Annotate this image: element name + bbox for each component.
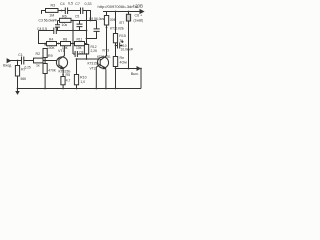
input terminal arrow <box>7 59 10 62</box>
resistor row2 box1 <box>47 42 57 46</box>
svg-text:R7: R7 <box>21 68 26 72</box>
wire base VT1 <box>45 60 59 62</box>
svg-text:С8: С8 <box>79 51 83 55</box>
resistor R15 <box>113 34 117 43</box>
wire x76 column <box>76 59 78 89</box>
svg-text:10К: 10К <box>76 46 82 50</box>
svg-text:470К: 470К <box>48 68 56 72</box>
resistor R13 from rail <box>104 16 108 26</box>
svg-text:/VT3: /VT3 <box>102 49 109 53</box>
wire emitter to ground <box>62 85 64 89</box>
svg-text:56К: 56К <box>21 77 27 81</box>
svg-text:С3 56,0мкФ: С3 56,0мкФ <box>39 19 58 23</box>
wire output y68 <box>116 68 138 70</box>
svg-text:С5: С5 <box>75 14 79 18</box>
wire Rn to ground <box>115 67 117 89</box>
wire x86 vertical <box>86 11 88 60</box>
svg-text:Вход: Вход <box>3 64 12 68</box>
resistor R12 on x86 <box>84 45 88 55</box>
svg-text:4,7: 4,7 <box>66 78 71 82</box>
svg-text:/ПТ: /ПТ <box>119 21 124 25</box>
svg-text:R11: R11 <box>77 37 83 41</box>
rail terminal arrow <box>140 10 144 14</box>
transistor VT3 <box>97 57 108 68</box>
resistor R6 <box>60 18 72 22</box>
+20V rail <box>103 11 140 13</box>
wire row2 <box>45 43 86 45</box>
svg-text:КТ315Б: КТ315Б <box>88 62 100 66</box>
svg-text:З0Ф: З0Ф <box>110 18 117 22</box>
wire x57 down <box>57 21 59 31</box>
wire y58.5 to VT3 base <box>77 58 100 60</box>
wire node x17 down <box>17 61 19 89</box>
capacitor C5 <box>77 21 83 31</box>
capacitor C10 plates <box>118 43 120 49</box>
capacitor C1 plates <box>22 57 24 65</box>
svg-text:С9 56,0мк: С9 56,0мк <box>89 17 105 21</box>
resistor R9 <box>43 64 47 74</box>
wire output terminal down <box>140 69 142 89</box>
svg-text:1к: 1к <box>119 39 123 43</box>
resistor row2 box3 <box>75 42 85 46</box>
svg-text:0,5: 0,5 <box>68 2 73 6</box>
wire R4 to base node <box>44 58 46 64</box>
svg-text:С6 +: С6 + <box>135 14 143 18</box>
wire R9 to ground <box>44 74 46 89</box>
svg-text:С4 0,5: С4 0,5 <box>37 27 47 31</box>
svg-text:0,33: 0,33 <box>85 2 92 6</box>
resistor R5 emitter <box>61 77 65 85</box>
output terminal arrow <box>137 67 140 70</box>
capacitor C3 plates <box>55 25 60 27</box>
resistor R10 <box>74 75 78 85</box>
svg-text:Вых.: Вых. <box>131 72 139 76</box>
transistor VT2 emitter leg <box>96 64 100 89</box>
svg-text:1М: 1М <box>49 14 54 18</box>
svg-text:Rн: Rн <box>120 56 125 60</box>
svg-text:С4: С4 <box>60 2 65 6</box>
svg-text:R9: R9 <box>48 54 53 58</box>
svg-text:100К: 100К <box>47 46 55 50</box>
resistor R2 <box>34 58 44 63</box>
capacitor C7 plates <box>81 8 83 15</box>
svg-text:С7: С7 <box>75 2 80 6</box>
resistor R3 top <box>46 9 59 13</box>
svg-text:КТ3102Б: КТ3102Б <box>110 27 125 31</box>
wire top feedback line <box>42 11 91 21</box>
wire x128 from rail <box>128 12 130 69</box>
capacitor C8 <box>73 51 87 57</box>
svg-text:4Ом: 4Ом <box>120 60 128 64</box>
svg-text:10к: 10к <box>62 23 68 27</box>
svg-text:КТ3107Б: КТ3107Б <box>97 55 110 59</box>
wire input <box>10 60 33 62</box>
svg-text:1к: 1к <box>36 64 40 68</box>
svg-text:R4: R4 <box>49 37 53 41</box>
svg-text:10,0мкФ: 10,0мкФ <box>121 48 134 52</box>
ground rail <box>18 88 142 90</box>
svg-text:R10: R10 <box>80 76 87 80</box>
svg-text:VT2: VT2 <box>90 66 96 70</box>
wire x115 from rail <box>115 12 117 34</box>
svg-text:(1watt): (1watt) <box>134 18 144 22</box>
resistor R4 <box>43 49 47 58</box>
resistor row2 box2 <box>61 42 71 46</box>
ground symbol <box>17 89 19 92</box>
svg-text:10К: 10К <box>62 46 68 50</box>
resistor Rn load <box>113 57 117 67</box>
capacitor C4 plates <box>65 8 67 15</box>
svg-text:1,0: 1,0 <box>81 80 86 84</box>
transistor VT1 <box>56 57 67 68</box>
resistor R16 <box>126 14 130 21</box>
svg-text:R2: R2 <box>36 52 41 56</box>
svg-text:R15: R15 <box>119 34 126 38</box>
resistor R7 input <box>15 66 19 77</box>
wire y20 row <box>58 20 97 22</box>
svg-text:R8: R8 <box>63 37 67 41</box>
wire x38 to R4 <box>39 31 46 46</box>
svg-text:R3: R3 <box>51 4 56 8</box>
wire x96 corner <box>87 21 100 39</box>
capacitor C4b plates <box>54 28 57 35</box>
svg-text:+20В: +20В <box>133 4 143 9</box>
wire x72 column <box>72 21 74 55</box>
wire y30 line <box>39 30 87 32</box>
svg-text:С1: С1 <box>18 53 22 57</box>
svg-text:R6: R6 <box>62 15 67 19</box>
svg-text:2,2К: 2,2К <box>91 49 98 53</box>
node dots <box>61 10 63 12</box>
svg-text:R5: R5 <box>66 73 71 77</box>
wire R15 to out node <box>115 43 117 57</box>
wire C10 to output column <box>116 41 124 46</box>
wire R2 to node <box>43 60 45 62</box>
